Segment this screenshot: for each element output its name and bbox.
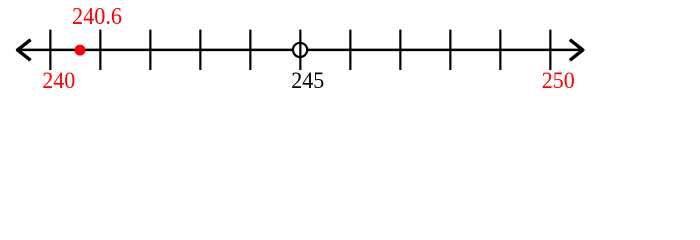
svg-text:240.6: 240.6 xyxy=(72,3,122,30)
svg-text:250: 250 xyxy=(542,68,575,94)
svg-text:240: 240 xyxy=(42,68,75,94)
svg-text:245: 245 xyxy=(291,68,324,94)
